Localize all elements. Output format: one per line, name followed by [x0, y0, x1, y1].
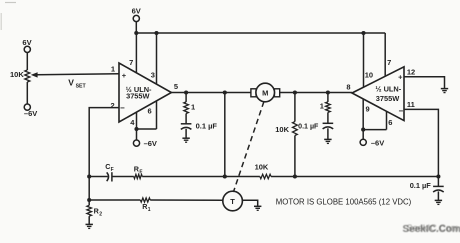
svg-text:2: 2: [111, 101, 115, 110]
svg-text:5: 5: [174, 82, 178, 91]
svg-text:11: 11: [407, 100, 415, 109]
svg-text:MOTOR IS GLOBE 100A565 (12 VDC: MOTOR IS GLOBE 100A565 (12 VDC): [276, 197, 412, 206]
svg-text:½ ULN-: ½ ULN-: [375, 85, 401, 94]
svg-text:SET: SET: [76, 84, 87, 90]
svg-text:3755W: 3755W: [126, 92, 149, 101]
svg-text:0.1 µF: 0.1 µF: [196, 121, 218, 130]
svg-text:1: 1: [191, 103, 195, 112]
svg-text:3755W: 3755W: [376, 94, 399, 103]
svg-text:7: 7: [387, 58, 391, 67]
svg-text:1: 1: [148, 207, 151, 213]
svg-text:SeekIC.Com: SeekIC.Com: [407, 223, 459, 233]
svg-text:1: 1: [320, 101, 324, 110]
svg-text:9: 9: [366, 105, 370, 114]
svg-text:10K: 10K: [275, 125, 289, 134]
svg-text:1: 1: [111, 64, 115, 73]
svg-text:10K: 10K: [10, 70, 24, 79]
svg-text:F: F: [111, 167, 114, 173]
svg-text:10: 10: [365, 71, 373, 80]
svg-text:V: V: [68, 78, 74, 88]
svg-text:T: T: [230, 197, 235, 206]
svg-text:−: −: [120, 104, 125, 113]
svg-text:2: 2: [99, 211, 102, 217]
svg-text:10K: 10K: [255, 162, 269, 171]
svg-text:6: 6: [148, 106, 152, 115]
svg-text:0.1 µF: 0.1 µF: [410, 181, 432, 190]
svg-text:7: 7: [129, 58, 133, 67]
svg-text:+: +: [122, 71, 127, 80]
svg-text:3: 3: [151, 70, 155, 79]
svg-text:M: M: [262, 89, 268, 98]
svg-text:6V: 6V: [132, 6, 141, 15]
svg-text:+: +: [398, 73, 403, 82]
svg-text:12: 12: [407, 68, 415, 77]
svg-text:–6V: –6V: [24, 109, 37, 118]
svg-text:–6V: –6V: [144, 139, 157, 148]
svg-text:8: 8: [346, 82, 350, 91]
svg-text:6: 6: [388, 118, 392, 127]
svg-text:0.1 µF: 0.1 µF: [298, 122, 319, 130]
svg-text:–6V: –6V: [371, 139, 384, 148]
svg-text:−: −: [398, 106, 403, 115]
svg-text:F: F: [139, 169, 142, 175]
